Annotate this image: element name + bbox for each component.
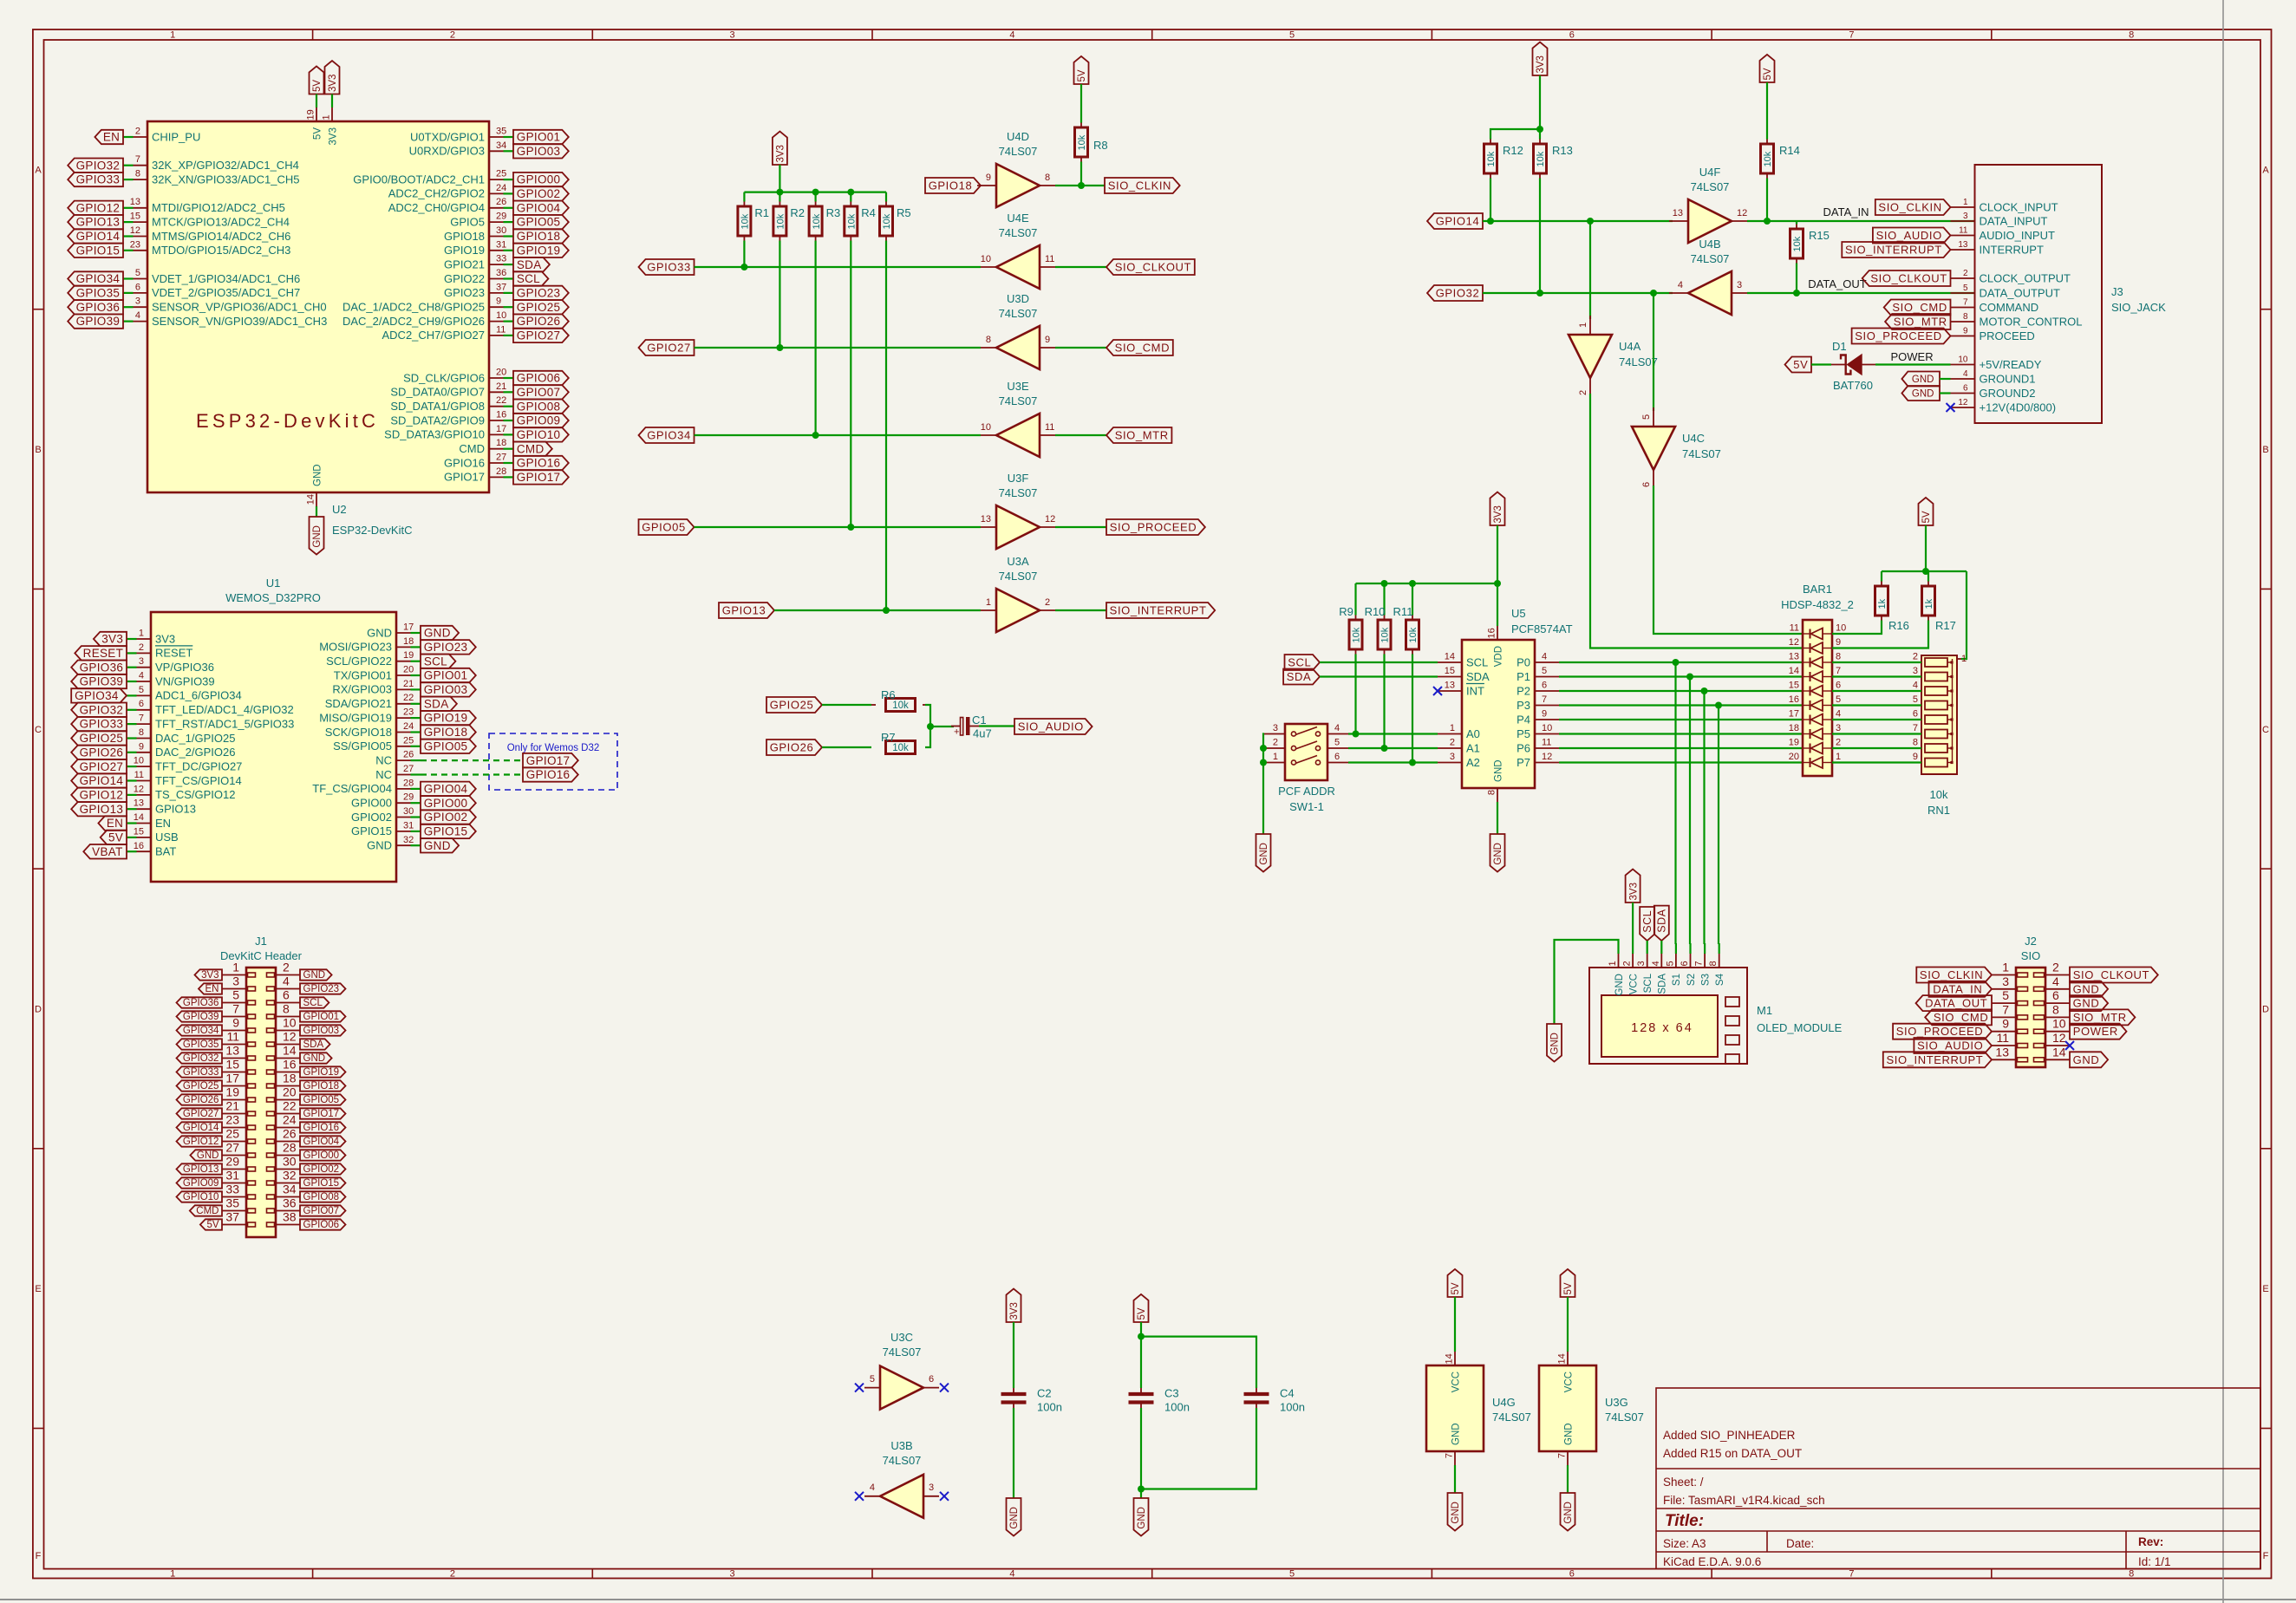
- svg-text:U3G: U3G: [1605, 1396, 1628, 1409]
- svg-text:GND: GND: [1912, 375, 1934, 385]
- svg-text:U3C: U3C: [890, 1331, 913, 1344]
- hier label GPIO34: [639, 427, 695, 443]
- wire P0 drop to OLED S1: [1674, 662, 1676, 944]
- svg-text:9: 9: [139, 741, 144, 752]
- J1 pin 7 GPIO39: [222, 1016, 246, 1018]
- svg-text:S1: S1: [1672, 974, 1682, 986]
- svg-text:12: 12: [283, 1030, 297, 1044]
- svg-text:SIO_PROCEED: SIO_PROCEED: [1855, 329, 1942, 342]
- svg-text:23: 23: [225, 1113, 239, 1127]
- svg-text:22: 22: [283, 1099, 297, 1113]
- svg-text:GND: GND: [424, 839, 451, 852]
- svg-text:20: 20: [403, 665, 414, 675]
- svg-text:27: 27: [225, 1141, 239, 1155]
- U1 pin 21 RX/GPIO03: [411, 688, 421, 690]
- hier label GPIO09: [513, 414, 569, 427]
- svg-text:3: 3: [1450, 752, 1455, 762]
- svg-text:29: 29: [496, 212, 506, 222]
- svg-text:USB: USB: [155, 831, 179, 844]
- svg-text:74LS07: 74LS07: [1691, 252, 1730, 265]
- svg-text:10k: 10k: [776, 213, 786, 229]
- svg-text:74LS07: 74LS07: [1492, 1411, 1531, 1424]
- svg-text:9: 9: [1836, 637, 1841, 648]
- svg-text:3: 3: [730, 1569, 735, 1580]
- U2 pin 22 SD_DATA1/GPIO8: [504, 406, 514, 407]
- svg-text:3: 3: [730, 30, 735, 41]
- svg-text:Size: A3: Size: A3: [1663, 1537, 1706, 1550]
- U2 pin 37 GPIO23: [504, 292, 514, 294]
- hier label SIO_MTR: [1106, 427, 1171, 443]
- svg-text:GPIO12: GPIO12: [183, 1137, 219, 1147]
- hier label GND: [300, 1052, 332, 1063]
- svg-text:4u7: 4u7: [973, 727, 992, 740]
- svg-text:GPIO13: GPIO13: [155, 803, 196, 816]
- wire BAR1 to RN1: [1832, 719, 1921, 720]
- svg-text:GPIO27: GPIO27: [183, 1109, 219, 1119]
- svg-text:32K_XN/GPIO33/ADC1_CH5: 32K_XN/GPIO33/ADC1_CH5: [152, 173, 300, 186]
- svg-text:A1: A1: [1466, 741, 1480, 754]
- U1 pin 18 MOSI/GPIO23: [411, 646, 421, 648]
- svg-text:19: 19: [1789, 738, 1799, 748]
- svg-text:GPIO22: GPIO22: [444, 272, 485, 285]
- svg-text:DAC_1/GPIO25: DAC_1/GPIO25: [155, 732, 236, 745]
- svg-text:DATA_OUT: DATA_OUT: [1808, 277, 1866, 290]
- U5 pin 2 A1: [1438, 747, 1462, 749]
- J3 pin 9 PROCEED: [1951, 336, 1975, 337]
- svg-text:4: 4: [1009, 30, 1014, 41]
- hier label VBAT: [83, 844, 127, 859]
- U1 pin 25 SS/GPIO05: [411, 746, 421, 747]
- svg-text:A2: A2: [1466, 756, 1480, 769]
- hier label SDA: [421, 697, 457, 712]
- power 3V3: [1533, 42, 1548, 76]
- hier label GPIO27: [513, 329, 569, 342]
- hier label RESET: [75, 646, 127, 661]
- svg-text:GPIO04: GPIO04: [517, 201, 561, 214]
- hier label POWER: [2070, 1024, 2127, 1039]
- svg-text:8: 8: [1836, 652, 1841, 662]
- svg-text:6: 6: [2052, 988, 2059, 1002]
- svg-text:4: 4: [1678, 280, 1683, 290]
- svg-text:GPIO03: GPIO03: [517, 145, 561, 158]
- hier label GPIO39: [177, 1011, 223, 1021]
- hier label SDA (vertical): [1654, 906, 1669, 941]
- wire: [1055, 526, 1106, 528]
- svg-text:3V3: 3V3: [776, 145, 786, 162]
- svg-text:GPIO14: GPIO14: [80, 774, 124, 787]
- junction: [847, 524, 854, 531]
- wire 5V rail: [1882, 570, 1967, 572]
- power 5V: [1919, 498, 1934, 525]
- svg-text:31: 31: [403, 820, 414, 831]
- no-connect INT: [1433, 687, 1442, 695]
- svg-text:ADC2_CH2/GPIO2: ADC2_CH2/GPIO2: [388, 187, 485, 200]
- hier label GPIO18: [421, 725, 476, 740]
- svg-text:Only for Wemos D32: Only for Wemos D32: [507, 743, 600, 753]
- wire POWER: [1875, 363, 1951, 365]
- wire: [822, 704, 871, 706]
- svg-text:GPIO16: GPIO16: [444, 456, 485, 469]
- svg-text:CLOCK_OUTPUT: CLOCK_OUTPUT: [1980, 271, 2071, 284]
- J1 pin 22 GPIO17: [276, 1113, 300, 1115]
- svg-text:GPIO23: GPIO23: [444, 286, 485, 299]
- svg-text:D1: D1: [1832, 340, 1847, 353]
- wire NC pin27 to GPIO16 (dashed): [421, 773, 523, 775]
- svg-text:GPIO02: GPIO02: [424, 811, 468, 824]
- hier label GPIO18: [513, 229, 569, 243]
- svg-text:9: 9: [1542, 709, 1547, 720]
- svg-text:SCK/GPIO18: SCK/GPIO18: [325, 726, 392, 739]
- U5 pin 5 P1: [1535, 676, 1559, 678]
- svg-text:2: 2: [1622, 961, 1633, 966]
- svg-text:2: 2: [1045, 597, 1050, 608]
- J1 pin 10 GPIO03: [276, 1030, 300, 1032]
- svg-text:R14: R14: [1779, 144, 1800, 157]
- svg-text:GPIO02: GPIO02: [351, 811, 392, 824]
- svg-text:7: 7: [1849, 1569, 1854, 1580]
- svg-text:GPIO17: GPIO17: [303, 1109, 340, 1119]
- wire: [1055, 434, 1106, 436]
- hier label GPIO34: [68, 271, 123, 285]
- svg-text:GPIO27: GPIO27: [517, 329, 561, 342]
- svg-text:5: 5: [232, 988, 239, 1002]
- svg-text:14: 14: [1445, 1353, 1455, 1364]
- hier label GND: [190, 1150, 222, 1160]
- svg-text:12: 12: [130, 225, 140, 236]
- svg-text:GND: GND: [2073, 997, 2100, 1010]
- svg-text:MTDO/GPIO15/ADC2_CH3: MTDO/GPIO15/ADC2_CH3: [152, 244, 290, 257]
- hier label GPIO32: [1427, 285, 1483, 301]
- hier label GPIO13: [68, 215, 123, 229]
- U2 pin 33 GPIO21: [504, 264, 514, 265]
- wire: [695, 347, 982, 349]
- junction: [1381, 745, 1388, 752]
- U2 pin 11 ADC2_CH7/GPIO27: [504, 335, 514, 336]
- svg-text:GND: GND: [1137, 1507, 1147, 1529]
- svg-text:GPIO18: GPIO18: [444, 230, 485, 243]
- svg-text:PROCEED: PROCEED: [1980, 329, 2035, 342]
- svg-text:5V: 5V: [1763, 68, 1773, 80]
- hier label SIO_AUDIO: [1014, 719, 1093, 734]
- hier label SIO_CMD: [1106, 340, 1173, 355]
- junction: [1260, 759, 1267, 766]
- svg-text:9: 9: [1963, 327, 1968, 336]
- svg-text:SCL: SCL: [1288, 656, 1311, 669]
- svg-text:GPIO27: GPIO27: [647, 342, 691, 355]
- svg-text:9: 9: [2002, 1017, 2009, 1031]
- J1 pin 6 SCL: [276, 1002, 300, 1004]
- svg-text:7: 7: [1542, 694, 1547, 705]
- svg-text:23: 23: [403, 707, 414, 718]
- svg-text:GND: GND: [1563, 1502, 1574, 1524]
- wire BAR1 to RN1: [1832, 661, 1921, 663]
- hier label GPIO35: [177, 1039, 223, 1049]
- svg-text:GPIO26: GPIO26: [770, 741, 814, 754]
- svg-text:GPIO04: GPIO04: [303, 1137, 340, 1147]
- svg-text:GPIO13: GPIO13: [80, 803, 124, 816]
- svg-text:6: 6: [1334, 752, 1340, 762]
- U1 pin 14 EN: [127, 822, 137, 824]
- J1 pin 15 GPIO33: [222, 1072, 246, 1073]
- hier label GPIO12: [177, 1136, 223, 1146]
- J3 pin 13 INTERRUPT: [1951, 249, 1975, 251]
- buffer U4B 74LS07: [1688, 271, 1732, 315]
- svg-text:8: 8: [2129, 1569, 2134, 1580]
- J2 pin 9: [1992, 1031, 2016, 1033]
- resistor R4 10k: [850, 192, 851, 202]
- wire P2 drop to OLED S3: [1703, 691, 1705, 944]
- J1 pin 21 GPIO27: [222, 1113, 246, 1115]
- power GND: [1490, 834, 1505, 872]
- svg-text:GPIO36: GPIO36: [183, 998, 219, 1008]
- J1 pin 30 GPIO02: [276, 1169, 300, 1170]
- J3 pin 5 DATA_OUTPUT: [1951, 292, 1975, 294]
- wire BAR1 to RN1: [1832, 675, 1921, 677]
- hier label GPIO06: [513, 371, 569, 385]
- svg-text:DAC_1/ADC2_CH8/GPIO25: DAC_1/ADC2_CH8/GPIO25: [342, 301, 485, 314]
- svg-text:EN: EN: [205, 984, 219, 994]
- svg-text:38: 38: [283, 1210, 297, 1224]
- hier label SDA: [300, 1039, 330, 1049]
- svg-text:74LS07: 74LS07: [883, 1454, 922, 1467]
- svg-text:25: 25: [403, 735, 414, 746]
- svg-text:SIO_AUDIO: SIO_AUDIO: [1917, 1039, 1983, 1052]
- J1 pin 9 GPIO34: [222, 1030, 246, 1032]
- svg-text:POWER: POWER: [2073, 1025, 2118, 1038]
- buffer U4D 74LS07: [996, 164, 1040, 207]
- svg-text:5V: 5V: [312, 80, 323, 92]
- svg-text:GPIO33: GPIO33: [647, 261, 691, 274]
- svg-text:TFT_CS/GPIO14: TFT_CS/GPIO14: [155, 774, 242, 787]
- svg-text:U4B: U4B: [1699, 238, 1720, 251]
- J1 pin 3 EN: [222, 988, 246, 990]
- svg-text:6: 6: [283, 988, 290, 1002]
- svg-text:GPIO35: GPIO35: [76, 287, 121, 300]
- U5 pin 14 SCL: [1438, 661, 1462, 663]
- svg-text:SIO_CMD: SIO_CMD: [1934, 1011, 1988, 1024]
- svg-text:R5: R5: [897, 206, 911, 219]
- svg-text:3: 3: [1836, 723, 1841, 733]
- J3 pin 1 CLOCK_INPUT: [1951, 206, 1975, 208]
- svg-text:VDET_1/GPIO34/ADC1_CH6: VDET_1/GPIO34/ADC1_CH6: [152, 272, 300, 285]
- hier label SDA: [1283, 669, 1320, 685]
- svg-text:SIO_MTR: SIO_MTR: [1894, 316, 1947, 329]
- resistor R13 10k: [1539, 140, 1541, 145]
- hier label SCL (vertical): [1640, 907, 1654, 941]
- svg-text:32: 32: [403, 835, 414, 845]
- wire 3V3 bus: [744, 192, 886, 193]
- svg-text:BAT: BAT: [155, 845, 176, 858]
- svg-text:6: 6: [1836, 681, 1841, 691]
- hier label GPIO26: [177, 1094, 223, 1105]
- svg-text:B: B: [2262, 445, 2268, 455]
- connector J2 SIO: [2016, 968, 2045, 1067]
- hier label GPIO23: [421, 640, 476, 655]
- svg-text:SIO_PROCEED: SIO_PROCEED: [1896, 1025, 1984, 1038]
- svg-text:SIO_AUDIO: SIO_AUDIO: [1018, 720, 1084, 733]
- svg-text:5: 5: [1665, 961, 1675, 966]
- svg-text:8: 8: [1963, 312, 1968, 322]
- J3 pin 2 CLOCK_OUTPUT: [1951, 277, 1975, 279]
- svg-text:GPIO01: GPIO01: [303, 1012, 340, 1022]
- resistor R12 10k: [1490, 140, 1491, 145]
- junction: [1138, 1333, 1145, 1340]
- wire DATA_OUT: [1747, 292, 1974, 294]
- svg-text:GPIO21: GPIO21: [444, 257, 485, 270]
- hier label GPIO14: [177, 1122, 223, 1132]
- svg-text:C4: C4: [1280, 1387, 1295, 1400]
- svg-text:SIO_CLKIN: SIO_CLKIN: [1108, 179, 1171, 192]
- J2 pin 1: [1992, 974, 2016, 976]
- svg-text:22: 22: [496, 395, 506, 406]
- svg-text:13: 13: [981, 514, 991, 525]
- svg-text:6: 6: [1569, 1569, 1575, 1580]
- svg-text:R4: R4: [861, 206, 876, 219]
- svg-text:10k: 10k: [1352, 627, 1362, 642]
- svg-text:GPIO39: GPIO39: [80, 675, 124, 688]
- svg-text:11: 11: [134, 770, 144, 780]
- svg-text:SENSOR_VP/GPIO36/ADC1_CH0: SENSOR_VP/GPIO36/ADC1_CH0: [152, 301, 327, 314]
- svg-text:1: 1: [1963, 198, 1968, 207]
- resistor R16 1k: [1881, 571, 1882, 582]
- svg-text:GND: GND: [1912, 389, 1934, 400]
- U1 pin 6 TFT_LED/ADC1_4/GPIO32: [127, 709, 137, 711]
- svg-text:GPIO14: GPIO14: [183, 1123, 219, 1133]
- no-connect: [855, 1492, 864, 1501]
- svg-text:100n: 100n: [1280, 1401, 1305, 1414]
- svg-text:VDD: VDD: [1493, 646, 1503, 667]
- U2 pin 36 GPIO22: [504, 277, 514, 279]
- wire BAR1 to RN1: [1832, 761, 1921, 763]
- svg-text:GPIO14: GPIO14: [1436, 215, 1480, 228]
- svg-text:INTERRUPT: INTERRUPT: [1980, 243, 2044, 256]
- svg-text:E: E: [35, 1284, 41, 1294]
- svg-text:F: F: [2263, 1551, 2269, 1561]
- svg-text:SIO_CMD: SIO_CMD: [1892, 301, 1947, 314]
- wire SW1 common to GND: [1263, 734, 1264, 835]
- U1 pin 22 SDA/GPIO21: [411, 703, 421, 705]
- svg-text:GPIO07: GPIO07: [517, 386, 561, 399]
- wire BAR1 to RN1: [1832, 704, 1921, 706]
- svg-text:GPIO18: GPIO18: [424, 726, 468, 739]
- J1 pin 27 GND: [222, 1155, 246, 1157]
- svg-text:3V3: 3V3: [1536, 55, 1546, 73]
- svg-text:GND: GND: [1259, 843, 1269, 865]
- U2 pin 8 32K_XN/GPIO33/ADC1_CH5: [123, 179, 134, 180]
- J1 pin 1 3V3: [222, 974, 246, 976]
- svg-text:5: 5: [1836, 694, 1841, 705]
- svg-text:NC: NC: [375, 753, 392, 766]
- svg-text:7: 7: [1963, 298, 1968, 308]
- hier label GPIO25: [177, 1080, 223, 1091]
- no-connect: [855, 1384, 864, 1392]
- svg-text:SIO_INTERRUPT: SIO_INTERRUPT: [1886, 1053, 1983, 1066]
- svg-text:3V3: 3V3: [328, 127, 338, 145]
- svg-text:U3D: U3D: [1007, 292, 1029, 305]
- svg-text:J3: J3: [2111, 285, 2123, 298]
- svg-text:J1: J1: [255, 935, 267, 948]
- J2 pin 5: [1992, 1002, 2016, 1004]
- svg-text:1k: 1k: [1924, 598, 1934, 609]
- svg-text:10k: 10k: [882, 213, 892, 229]
- hier label GPIO26: [513, 314, 569, 328]
- svg-text:SD_DATA1/GPIO8: SD_DATA1/GPIO8: [390, 400, 485, 413]
- hier label GPIO08: [300, 1191, 346, 1202]
- svg-text:12: 12: [1789, 637, 1799, 648]
- hier label GPIO17: [300, 1108, 346, 1118]
- wire P3 drop to OLED S4: [1718, 706, 1719, 945]
- svg-text:GPIO33: GPIO33: [183, 1067, 219, 1078]
- svg-text:22: 22: [403, 693, 414, 703]
- svg-text:1: 1: [1450, 723, 1455, 733]
- svg-text:R9: R9: [1339, 605, 1353, 618]
- svg-text:SIO_CLKOUT: SIO_CLKOUT: [1870, 272, 1947, 285]
- svg-text:GPIO12: GPIO12: [76, 201, 121, 214]
- svg-text:SD_CLK/GPIO6: SD_CLK/GPIO6: [403, 371, 485, 384]
- junction: [1381, 580, 1388, 587]
- svg-text:D: D: [35, 1005, 42, 1015]
- U5 pin 11 P6: [1535, 747, 1559, 749]
- resistor R2 10k: [779, 192, 780, 202]
- svg-text:7: 7: [232, 1002, 239, 1016]
- svg-text:R7: R7: [881, 731, 896, 744]
- svg-text:20: 20: [496, 368, 506, 378]
- J1 pin 18 GPIO18: [276, 1085, 300, 1087]
- svg-text:12: 12: [2052, 1031, 2066, 1045]
- svg-text:GPIO17: GPIO17: [517, 471, 561, 484]
- svg-text:GPIO39: GPIO39: [76, 315, 121, 328]
- svg-text:6: 6: [1963, 384, 1968, 394]
- hier label GPIO27: [71, 759, 127, 774]
- svg-text:RESET: RESET: [155, 647, 192, 660]
- U1 pin 32 GND: [411, 844, 421, 846]
- J1 pin 35 CMD: [222, 1210, 246, 1212]
- svg-text:8: 8: [2129, 30, 2134, 41]
- wire: [925, 705, 930, 747]
- hier label GPIO10: [177, 1191, 223, 1202]
- svg-text:74LS07: 74LS07: [999, 145, 1038, 158]
- resistor R14 10k: [1760, 55, 1775, 82]
- svg-text:11: 11: [1790, 623, 1799, 634]
- svg-text:B: B: [35, 445, 41, 455]
- svg-text:14: 14: [2052, 1045, 2066, 1059]
- svg-text:TS_CS/GPIO12: TS_CS/GPIO12: [155, 788, 235, 801]
- J1 pin 38 GPIO06: [276, 1224, 300, 1226]
- svg-text:J2: J2: [2025, 935, 2037, 948]
- svg-text:2: 2: [2052, 961, 2059, 974]
- hier label GPIO23: [513, 286, 569, 300]
- junction: [1922, 568, 1929, 575]
- svg-text:29: 29: [403, 792, 414, 803]
- U1 pin 24 SCK/GPIO18: [411, 731, 421, 733]
- svg-text:GPIO06: GPIO06: [517, 372, 561, 385]
- J1 pin 29 GPIO13: [222, 1169, 246, 1170]
- hier label GPIO15: [68, 244, 123, 257]
- svg-text:10k: 10k: [1486, 151, 1497, 166]
- svg-text:CLOCK_INPUT: CLOCK_INPUT: [1980, 200, 2058, 213]
- junction: [1764, 218, 1771, 225]
- svg-text:13: 13: [1958, 240, 1968, 250]
- svg-text:SCL: SCL: [1643, 973, 1654, 993]
- hier label SIO_PROCEED: [1106, 519, 1205, 535]
- svg-text:74LS07: 74LS07: [999, 226, 1038, 239]
- svg-text:17: 17: [225, 1072, 239, 1085]
- hier label GPIO32: [71, 703, 127, 718]
- hier label EN: [95, 130, 123, 144]
- svg-text:74LS07: 74LS07: [999, 307, 1038, 320]
- svg-text:3V3: 3V3: [101, 633, 123, 646]
- no-connect: [2065, 1041, 2074, 1050]
